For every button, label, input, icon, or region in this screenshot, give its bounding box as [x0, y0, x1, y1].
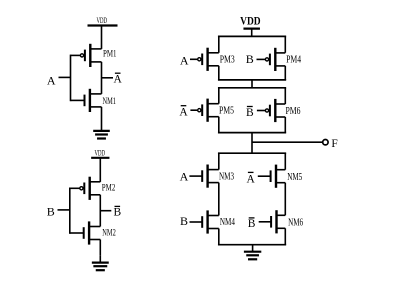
wire PM4 source drop	[284, 36, 286, 52]
svg-text:A: A	[247, 173, 256, 185]
transistor NM2	[70, 221, 116, 244]
svg-text:NM6: NM6	[288, 218, 303, 229]
power VDD (main)	[240, 13, 261, 28]
svg-text:B: B	[246, 52, 254, 66]
svg-text:VDD: VDD	[95, 149, 106, 158]
wire PM4 drain drop	[284, 66, 286, 80]
transistor NM1	[71, 89, 117, 112]
node F terminal	[323, 140, 328, 145]
wire input B	[58, 209, 70, 211]
node Abar (PM5 input label)	[179, 106, 188, 119]
node A (PM3 input label)	[180, 53, 189, 67]
svg-text:A: A	[179, 106, 188, 118]
svg-text:A: A	[47, 73, 56, 87]
svg-text:NM4: NM4	[220, 217, 235, 228]
ground (main)	[244, 245, 261, 260]
transistor PM2	[70, 177, 116, 200]
transistor PM1	[71, 44, 117, 67]
svg-text:B: B	[47, 205, 55, 219]
wire PM3 source drop	[218, 36, 220, 52]
node Bbar (PM6 input label)	[246, 107, 254, 119]
svg-text:F: F	[331, 138, 337, 150]
svg-text:PM2: PM2	[102, 183, 116, 193]
svg-text:NM3: NM3	[219, 171, 234, 182]
wire PMOS block2 top rail	[218, 87, 286, 89]
svg-text:A: A	[180, 169, 189, 183]
wire pull-up to pull-down	[251, 133, 253, 154]
wire block1 to block2	[251, 80, 253, 88]
wire PM5 source drop	[218, 88, 220, 104]
power VDD (cell 1)	[88, 16, 118, 25]
svg-text:NM1: NM1	[103, 96, 117, 106]
node F (label)	[331, 138, 337, 150]
svg-text:PM1: PM1	[103, 49, 117, 59]
wire output F	[252, 141, 323, 143]
transistor PM6	[257, 99, 301, 122]
wire output Abar stub	[102, 77, 114, 79]
svg-text:B: B	[113, 207, 121, 219]
svg-text:A: A	[180, 53, 189, 67]
node Bbar (output label)	[113, 206, 121, 218]
transistor NM5	[258, 165, 302, 188]
svg-text:B: B	[248, 218, 256, 230]
wire input A	[59, 76, 71, 78]
svg-text:PM5: PM5	[219, 105, 234, 116]
wire NM1 source to ground	[101, 107, 103, 124]
wire PM6 source drop	[284, 88, 286, 104]
wire PMOS block1 top rail	[218, 35, 286, 37]
transistor NM3	[189, 165, 234, 188]
node A (NM3 input label)	[180, 169, 189, 183]
transistor PM5	[190, 99, 234, 122]
node Abar (NM5 input label)	[247, 172, 256, 185]
wire NM5 drain drop	[284, 153, 286, 170]
svg-text:PM3: PM3	[220, 55, 235, 66]
svg-text:NM5: NM5	[287, 172, 302, 183]
wire PMOS block1 bottom rail	[218, 79, 286, 81]
svg-text:B: B	[180, 214, 188, 228]
ground (cell 2)	[92, 256, 109, 271]
wire PMOS block2 bottom rail	[218, 132, 286, 134]
svg-text:PM4: PM4	[286, 55, 301, 66]
wire NM3-NM4 junction	[218, 183, 220, 216]
transistor NM6	[259, 210, 303, 233]
wire VDD to PM1 source	[101, 26, 103, 49]
wire PM3 drain drop	[218, 66, 220, 80]
wire NM6 source drop	[284, 228, 286, 244]
svg-text:NM2: NM2	[102, 228, 116, 238]
wire PM5 drain drop	[218, 117, 220, 133]
power VDD (cell 2)	[91, 149, 109, 158]
wire PM2 drain to NM2 drain	[99, 195, 101, 227]
node B (NM4 input label)	[180, 214, 188, 228]
svg-text:VDD: VDD	[97, 16, 108, 25]
wire NM3 drain drop	[218, 153, 220, 169]
transistor NM4	[190, 210, 235, 233]
node Abar (output label)	[114, 73, 123, 86]
wire PM6 drain drop	[284, 117, 286, 133]
wire NMOS block top rail	[218, 152, 286, 154]
wire VDD to pull-up network	[251, 29, 253, 37]
node A (input label)	[47, 73, 56, 87]
transistor PM4	[257, 48, 302, 71]
transistor PM3	[190, 48, 235, 71]
wire NM4 source drop	[218, 229, 220, 245]
wire NM5-NM6 junction	[284, 183, 286, 216]
wire NM2 source to ground	[99, 240, 101, 256]
svg-text:PM6: PM6	[286, 106, 301, 117]
wire input riser B	[69, 188, 71, 234]
wire PM1 drain to NM1 drain	[101, 62, 103, 94]
ground (cell 1)	[93, 124, 110, 139]
node Bbar (NM6 input label)	[248, 218, 256, 230]
node B (PM4 input label)	[246, 52, 254, 66]
wire input riser A	[70, 55, 72, 102]
wire VDD to PM2 source	[99, 158, 101, 182]
wire NMOS block bottom rail	[218, 244, 286, 246]
wire output Bbar stub	[100, 210, 111, 212]
node B (input label)	[47, 205, 55, 219]
svg-text:B: B	[246, 107, 254, 119]
svg-text:A: A	[114, 74, 123, 86]
svg-text:VDD: VDD	[240, 13, 261, 27]
